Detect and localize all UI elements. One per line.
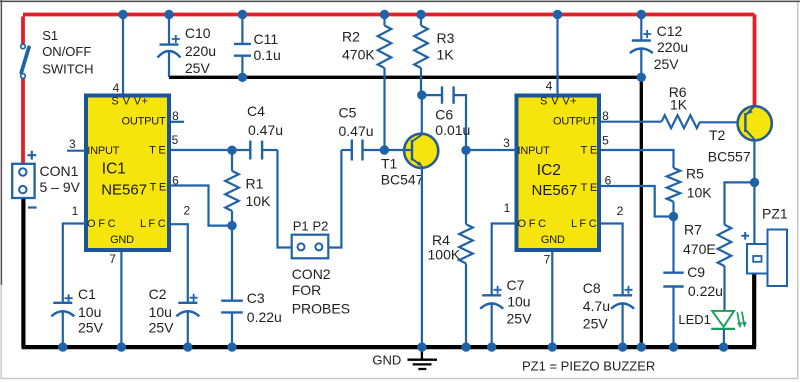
svg-text:IC2: IC2: [537, 162, 561, 179]
svg-text:5 – 9V: 5 – 9V: [40, 179, 81, 195]
wire C4 to CON2: [278, 150, 292, 248]
IC1 pin 4 wire: [122, 16, 124, 93]
IC1 pin 8 stub: [171, 121, 184, 123]
capacitor C11: [241, 16, 243, 44]
svg-text:220u: 220u: [185, 43, 216, 59]
svg-text:3: 3: [69, 137, 76, 151]
svg-text:3: 3: [503, 136, 510, 150]
svg-text:5: 5: [172, 133, 179, 147]
svg-text:C9: C9: [687, 264, 705, 280]
svg-text:NE567: NE567: [532, 182, 578, 199]
IC2 pin 2 wire: [601, 224, 623, 296]
svg-text:CON2: CON2: [292, 266, 331, 282]
svg-text:10u: 10u: [149, 304, 172, 320]
svg-text:1: 1: [504, 201, 511, 215]
capacitor C4: [232, 149, 250, 151]
capacitor C2: [178, 302, 197, 304]
junction dots bottom bus: [58, 342, 67, 351]
svg-text:BC557: BC557: [708, 149, 751, 165]
svg-text:T E: T E: [150, 182, 166, 194]
svg-text:25V: 25V: [654, 56, 680, 72]
svg-text:C5: C5: [339, 105, 357, 121]
resistor R2: [383, 16, 385, 25]
svg-text:L F C: L F C: [140, 218, 166, 230]
svg-text:PZ1: PZ1: [762, 205, 788, 221]
capacitor C5: [341, 149, 351, 151]
svg-text:CON1: CON1: [40, 163, 79, 179]
svg-text:T2: T2: [709, 127, 726, 143]
wire CON2 to C5: [328, 150, 341, 248]
svg-text:1K: 1K: [670, 97, 688, 113]
svg-text:25V: 25V: [185, 60, 211, 76]
svg-text:P2: P2: [313, 219, 329, 234]
svg-text:OUTPUT: OUTPUT: [553, 115, 598, 127]
svg-text:T E: T E: [581, 145, 597, 157]
svg-text:0.01u: 0.01u: [435, 122, 470, 138]
svg-text:GND: GND: [541, 234, 565, 246]
capacitor C12: [640, 16, 642, 40]
capacitor C3: [231, 226, 233, 301]
IC2 pin 3 wire: [466, 149, 517, 151]
svg-text:P1: P1: [293, 219, 309, 234]
LED LED1: [712, 311, 734, 327]
svg-text:GND: GND: [372, 352, 401, 367]
svg-text:S V V+: S V V+: [111, 95, 148, 107]
svg-text:470E: 470E: [683, 241, 716, 257]
svg-text:R5: R5: [686, 166, 704, 182]
IC1 pin 1 wire: [63, 224, 86, 303]
svg-text:100K: 100K: [428, 247, 461, 263]
piezo buzzer PZ1: [768, 230, 788, 287]
svg-text:IC1: IC1: [102, 160, 126, 177]
svg-text:ON/OFF: ON/OFF: [42, 44, 91, 59]
transistor T1 BC547: [404, 134, 438, 168]
svg-text:7: 7: [109, 252, 116, 266]
PZ1 plus terminal: [741, 232, 749, 240]
svg-text:5: 5: [602, 134, 609, 148]
transistor T2 BC557: [738, 106, 772, 140]
IC2 pin 1 wire: [492, 224, 517, 296]
wire V+ red bus (top): [23, 15, 755, 164]
resistor R7: [725, 182, 755, 224]
wire T2 collector: [753, 139, 755, 244]
capacitor C9: [672, 217, 674, 273]
svg-text:R7: R7: [684, 222, 702, 238]
svg-text:SWITCH: SWITCH: [42, 61, 93, 76]
svg-text:R2: R2: [342, 29, 360, 45]
resistor R6: [662, 115, 701, 128]
switch S1: [21, 47, 29, 72]
svg-text:6: 6: [172, 174, 179, 188]
svg-text:NE567: NE567: [101, 182, 147, 199]
svg-text:R1: R1: [246, 176, 264, 192]
svg-text:4.7u: 4.7u: [583, 298, 610, 314]
IC2 pin 4 wire: [556, 16, 558, 93]
svg-text:T1: T1: [381, 155, 398, 171]
svg-text:T E: T E: [149, 145, 165, 157]
svg-text:O F C: O F C: [518, 218, 547, 230]
wire T1 collector: [421, 95, 423, 135]
svg-text:T E: T E: [581, 182, 597, 194]
capacitor C6: [422, 94, 442, 96]
svg-text:R3: R3: [437, 30, 455, 46]
svg-text:GND: GND: [110, 234, 134, 246]
IC1 pin 2 wire: [171, 224, 188, 303]
IC2 pin 6 wire: [601, 186, 674, 217]
svg-text:25V: 25V: [149, 320, 175, 336]
svg-text:C4: C4: [247, 103, 265, 119]
svg-text:25V: 25V: [583, 315, 609, 331]
svg-text:LED1: LED1: [678, 312, 711, 327]
wire LED1 cathode: [723, 329, 725, 347]
svg-text:PROBES: PROBES: [292, 301, 350, 317]
IC2 pin 7 wire: [551, 252, 553, 347]
CON1 plus terminal: [27, 151, 36, 160]
svg-text:10u: 10u: [78, 304, 101, 320]
svg-text:2: 2: [617, 204, 624, 218]
svg-text:BC547: BC547: [381, 171, 424, 187]
CON1 minus terminal: [28, 206, 37, 208]
svg-text:C1: C1: [78, 286, 96, 302]
svg-text:O F C: O F C: [87, 218, 116, 230]
IC1 pin 3 stub: [67, 150, 86, 152]
resistor R4: [465, 150, 467, 224]
svg-text:0.22u: 0.22u: [688, 283, 723, 299]
svg-text:10K: 10K: [687, 184, 713, 200]
op-amp IC2 NE567 body: [517, 96, 600, 251]
svg-text:1K: 1K: [437, 47, 455, 63]
svg-text:L F C: L F C: [571, 218, 597, 230]
capacitor C1: [53, 302, 72, 304]
capacitor C8: [613, 294, 632, 296]
connector CON1: [12, 164, 34, 198]
svg-text:C2: C2: [149, 286, 167, 302]
svg-text:25V: 25V: [507, 311, 533, 327]
svg-text:6: 6: [605, 174, 612, 188]
svg-text:0.22u: 0.22u: [247, 309, 282, 325]
resistor R5: [667, 168, 681, 202]
svg-text:C11: C11: [254, 31, 279, 47]
svg-text:S1: S1: [42, 28, 58, 43]
svg-text:INPUT: INPUT: [87, 145, 119, 157]
connector CON2: [292, 235, 329, 259]
svg-text:2: 2: [183, 204, 190, 218]
svg-text:FOR: FOR: [292, 282, 322, 298]
svg-text:C12: C12: [657, 23, 683, 39]
IC1 pin 6 wire: [171, 186, 232, 226]
svg-text:PZ1 = PIEZO BUZZER: PZ1 = PIEZO BUZZER: [522, 359, 655, 374]
svg-text:C7: C7: [507, 277, 525, 293]
svg-text:10K: 10K: [246, 193, 272, 209]
svg-text:8: 8: [602, 109, 609, 123]
svg-text:C10: C10: [185, 25, 211, 41]
IC1 pin 5 wire: [171, 149, 232, 151]
wire to PZ1: [753, 244, 755, 245]
resistor R1: [231, 150, 233, 171]
svg-text:10u: 10u: [507, 294, 530, 310]
svg-text:S V V+: S V V+: [540, 95, 577, 107]
svg-text:OUTPUT: OUTPUT: [121, 115, 166, 127]
svg-text:4: 4: [113, 81, 120, 95]
capacitor C10: [168, 16, 170, 44]
svg-text:0.1u: 0.1u: [254, 47, 281, 63]
wire V- black bus (middle horizontal + right vertical): [169, 77, 641, 347]
svg-text:C3: C3: [247, 290, 265, 306]
svg-text:7: 7: [544, 252, 551, 266]
capacitor C7: [482, 294, 501, 296]
IC2 pin 5 wire (to R5): [601, 150, 674, 168]
svg-text:0.47u: 0.47u: [248, 122, 283, 138]
svg-text:C6: C6: [435, 107, 453, 123]
svg-text:INPUT: INPUT: [518, 145, 550, 157]
wire ground bus (bottom): [22, 198, 756, 347]
svg-text:220u: 220u: [657, 39, 688, 55]
svg-text:4: 4: [546, 79, 553, 93]
svg-text:25V: 25V: [78, 320, 104, 336]
svg-text:C8: C8: [583, 280, 601, 296]
IC2 pin 8 wire (to R6): [601, 121, 662, 123]
svg-text:0.47u: 0.47u: [339, 123, 374, 139]
wire T1 emitter to ground: [421, 166, 423, 347]
svg-text:470K: 470K: [342, 47, 375, 63]
svg-text:1: 1: [72, 204, 79, 218]
ground symbol: [408, 349, 438, 369]
op-amp IC1 NE567 body: [86, 96, 169, 251]
resistor R3: [420, 16, 422, 25]
svg-text:8: 8: [172, 109, 179, 123]
IC1 pin 7 wire: [120, 252, 122, 347]
